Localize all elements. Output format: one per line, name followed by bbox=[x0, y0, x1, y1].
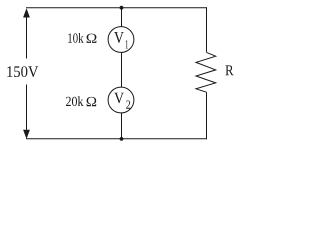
value label 20k bbox=[66, 96, 84, 106]
wire branch bottom (V2 to node) bbox=[121, 113, 123, 139]
voltmeter V1 circle bbox=[108, 27, 134, 53]
label V2 letter V bbox=[114, 93, 124, 104]
node A (top junction dot) bbox=[120, 6, 124, 10]
label V1 subscript 1 bbox=[126, 40, 128, 48]
wire V1 to V2 bbox=[121, 52, 123, 87]
wire top bbox=[26, 7, 207, 9]
wire right upper bbox=[206, 7, 208, 52]
label V1 letter V bbox=[114, 32, 124, 43]
resistor R bbox=[196, 52, 216, 92]
label V2 subscript 2 bbox=[126, 101, 130, 109]
label 150V bbox=[7, 66, 38, 77]
label R bbox=[225, 65, 233, 75]
150V arrow shaft lower bbox=[26, 85, 28, 130]
value label 10k ohm sign bbox=[87, 34, 97, 43]
value label 20k ohm sign bbox=[87, 97, 97, 106]
node B (bottom junction dot) bbox=[120, 137, 124, 141]
150V arrowhead up bbox=[23, 8, 30, 17]
wire bottom bbox=[26, 138, 207, 140]
value label 10k bbox=[68, 33, 83, 43]
wire branch top (node to V1) bbox=[121, 8, 123, 27]
150V arrowhead down bbox=[23, 130, 30, 139]
150V arrow shaft upper bbox=[26, 16, 28, 58]
voltmeter V2 circle bbox=[108, 87, 134, 113]
wire right lower bbox=[206, 92, 208, 139]
